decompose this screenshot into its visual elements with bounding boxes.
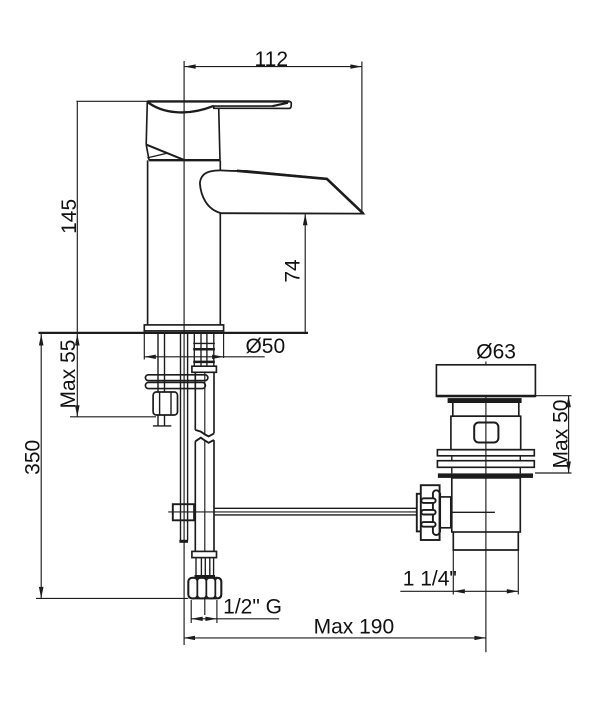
drain tailpiece [453, 532, 518, 550]
washer bar 2 [145, 382, 205, 388]
spout outline [200, 170, 363, 213]
base plate [144, 325, 223, 331]
rod centerline [168, 511, 417, 513]
svg-text:112: 112 [255, 48, 288, 71]
supply pipe [195, 372, 214, 551]
drain centerline [485, 362, 487, 653]
faucet centerline [183, 61, 185, 645]
drain flange cap [436, 365, 535, 397]
dimension 1 1/4 line [400, 589, 518, 593]
mounting nut [153, 392, 177, 415]
handle lever top [147, 101, 291, 108]
dimension 145 line [76, 101, 78, 333]
body joint line [149, 159, 220, 161]
rod into drain [451, 511, 495, 513]
drain seal plate dark [438, 473, 533, 478]
spout top thick edge [237, 171, 363, 214]
pipe centerline below nut [204, 598, 206, 615]
svg-text:Ø50: Ø50 [245, 335, 285, 358]
mounting studs [153, 333, 171, 426]
hose threads [195, 558, 216, 579]
svg-text:350: 350 [21, 440, 44, 475]
dimension 1/2G extension lines [190, 600, 192, 623]
dimension 112 line [184, 64, 362, 68]
hose shoulder collar [192, 551, 217, 557]
pipe break symbol [195, 430, 214, 443]
washer bar 1 [145, 375, 208, 381]
svg-text:145: 145 [58, 199, 81, 234]
drain lower body [452, 478, 521, 532]
knurled nut [417, 485, 440, 540]
dimension Max190 line [184, 636, 486, 640]
extension line handle top [76, 100, 147, 102]
dimension 1 1/4 extension lines [452, 550, 454, 595]
dimension 350 line [39, 333, 44, 598]
hex nut 1/2G [188, 578, 221, 599]
pull rod tee block [173, 504, 194, 520]
drain window square [474, 423, 498, 443]
body between plates [452, 456, 521, 474]
drain neck [453, 403, 519, 416]
body right edge [219, 160, 221, 325]
svg-text:74: 74 [282, 259, 305, 283]
dimension Max50 line [566, 396, 571, 473]
lever bottom diagonal [146, 145, 184, 161]
nut stub [440, 497, 451, 528]
extension line spout tip [361, 62, 363, 214]
extension line at nut bottom [36, 597, 188, 599]
body left edge [147, 160, 149, 325]
inlet collar [192, 366, 217, 372]
drain plate 2 [437, 461, 534, 468]
dimension 74 line [303, 214, 308, 333]
svg-text:Max 55: Max 55 [57, 340, 80, 409]
wedge line [147, 153, 167, 158]
svg-text:Ø63: Ø63 [476, 341, 516, 364]
handle saddle arc [147, 102, 213, 113]
svg-text:Max 50: Max 50 [550, 400, 573, 469]
dimension D50 extension lines [143, 332, 145, 360]
svg-text:1/2" G: 1/2" G [223, 595, 282, 618]
handle base left edge [146, 101, 147, 144]
horizontal pull rod [214, 508, 417, 515]
dimension Max50 extension lines [535, 395, 571, 397]
drain plate 1 [437, 450, 534, 456]
inlet threaded stub [193, 334, 215, 366]
cap bottom thick edge [436, 395, 535, 398]
gasket [448, 398, 522, 403]
dimension 1/2G line [191, 617, 279, 621]
counter line [39, 332, 309, 334]
dimension Max55 extension line [70, 416, 156, 418]
dimension Max55 line [75, 333, 80, 417]
body upper right edge [219, 108, 220, 161]
svg-text:1 1/4": 1 1/4" [403, 567, 457, 590]
dimension D50 line [144, 355, 264, 359]
drain upper body [451, 416, 521, 450]
pull rod [179, 333, 188, 543]
svg-text:Max 190: Max 190 [314, 616, 395, 639]
body left edge kink [146, 145, 149, 161]
